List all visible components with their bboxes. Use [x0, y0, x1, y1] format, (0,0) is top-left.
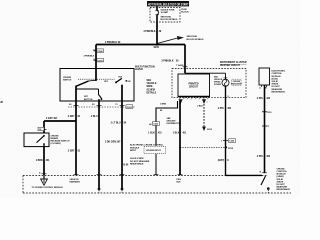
ground note — [167, 118, 182, 125]
svg-text:R/A: R/A — [119, 76, 123, 79]
svg-text:INSTRUMENT CLUSTER: INSTRUMENT CLUSTER — [220, 62, 247, 64]
inner block label — [188, 84, 198, 89]
mechanical link (dashed) — [78, 78, 115, 80]
fuse block name label — [181, 9, 189, 14]
switch SW2 resume/accel — [104, 76, 131, 87]
svg-text:MEASURE: MEASURE — [272, 88, 283, 91]
cruise module label column — [277, 168, 291, 191]
wire label 2 GRY 81 — [68, 116, 81, 118]
wire label 1 BLK 451 — [148, 132, 162, 135]
svg-text:2 BLK: 2 BLK — [197, 106, 203, 108]
connector C210 tick — [262, 112, 272, 114]
svg-text:INPUT: INPUT — [130, 150, 137, 152]
fuse F1 GAGES — [155, 6, 158, 22]
connector C206 — [93, 48, 103, 52]
wire: ground continues — [155, 154, 157, 176]
instrument cluster dashed box — [172, 69, 246, 98]
svg-text:3 PNK/BLK: 3 PNK/BLK — [161, 61, 173, 63]
wire: right feed drop to cluster — [184, 45, 186, 74]
wire label 1 BRN 441 — [36, 159, 50, 162]
svg-text:BLOCK DETAILS: BLOCK DETAILS — [187, 38, 205, 41]
ECM box — [259, 68, 270, 85]
wire: switch output 3 — [121, 85, 123, 188]
svg-text:SEE: SEE — [147, 80, 152, 82]
svg-text:4 PPL: 4 PPL — [257, 155, 264, 158]
svg-text:BRAKE: BRAKE — [51, 137, 59, 140]
wire: brake switch output — [43, 147, 45, 175]
wire: cluster ground straight — [179, 101, 181, 175]
svg-text:WIRE: WIRE — [147, 86, 153, 88]
svg-text:CRUISE INPUT: CRUISE INPUT — [146, 150, 162, 152]
wire: switch output 1 — [75, 86, 77, 175]
svg-text:HARNESS: HARNESS — [70, 180, 81, 183]
connector C210 — [149, 122, 159, 126]
wire label 3 PNK/BLK 39 — [161, 61, 179, 63]
wire label 3 PNK/BLK 39 — [143, 31, 161, 33]
svg-text:1: 1 — [221, 140, 222, 142]
svg-text:1 BLK: 1 BLK — [173, 133, 180, 135]
svg-text:RESISTANCE: RESISTANCE — [130, 163, 144, 166]
cruise indicator label — [231, 79, 242, 85]
wire label 1 GRY 8 — [218, 160, 229, 162]
svg-text:MULTI-FUNCTION: MULTI-FUNCTION — [135, 66, 155, 68]
wire: main feed horizontal — [96, 44, 185, 46]
svg-text:SCHEM: SCHEM — [214, 84, 221, 86]
instrument cluster label — [220, 62, 247, 67]
connector C1 tick — [262, 126, 270, 128]
brake switch label — [51, 135, 70, 145]
svg-text:(CLOSED): (CLOSED) — [51, 143, 61, 145]
svg-text:C1: C1 — [115, 104, 117, 106]
svg-text:INDICATOR: INDICATOR — [231, 82, 242, 85]
cluster pin 7 — [202, 99, 206, 104]
svg-text:2 BLU: 2 BLU — [91, 116, 98, 118]
cruise indicator bulb — [222, 79, 229, 86]
brake wire pin and off-page arrow — [32, 171, 64, 189]
cluster left note — [214, 77, 223, 86]
svg-text:C275: C275 — [98, 60, 104, 62]
svg-text:PRINTED CIRCUIT: PRINTED CIRCUIT — [220, 65, 241, 67]
see-vehicle note column — [147, 80, 157, 95]
svg-text:TO CRUISE CONTROL MODULE: TO CRUISE CONTROL MODULE — [32, 187, 64, 189]
svg-text:BLOCK DETAILS: BLOCK DETAILS — [161, 18, 179, 21]
fuse block dashed box — [150, 8, 180, 23]
svg-text:BLOCK: BLOCK — [181, 12, 189, 14]
switch wire 1 pin at module — [70, 175, 81, 184]
cruise release brake switch box — [24, 133, 49, 147]
wire label 2 LT BLU 84 — [111, 122, 127, 125]
svg-text:LEVER: LEVER — [135, 69, 143, 71]
svg-text:B 84: B 84 — [123, 163, 129, 166]
ECM pins — [259, 85, 267, 90]
ECM label column — [272, 71, 286, 94]
svg-text:3 PNK/BLK: 3 PNK/BLK — [83, 56, 94, 58]
svg-text:(GRAY): (GRAY) — [277, 175, 285, 178]
svg-text:8: 8 — [228, 96, 229, 98]
switch SW1 common blade — [75, 69, 97, 88]
svg-text:STATE: STATE — [272, 83, 279, 86]
cruise control module boundary (dashed) — [23, 176, 291, 194]
svg-text:1 BRN: 1 BRN — [160, 104, 167, 106]
svg-text:DETAILS: DETAILS — [147, 92, 157, 95]
svg-text:2 GRY: 2 GRY — [68, 151, 75, 153]
svg-text:7: 7 — [207, 102, 208, 104]
svg-text:C220: C220 — [229, 141, 235, 143]
svg-text:GAGES FUSE: GAGES FUSE — [161, 8, 175, 11]
svg-text:2 GRY 397: 2 GRY 397 — [46, 118, 58, 120]
svg-text:B1: B1 — [92, 104, 94, 106]
wire: left feed drop to switch — [95, 45, 97, 69]
wire: cluster sensor lead (dashed) — [197, 102, 212, 131]
wire: ECM output — [264, 85, 266, 173]
svg-text:A8: A8 — [149, 123, 151, 126]
wire label 4 PPL 420 — [257, 155, 271, 158]
set button switch — [76, 86, 102, 100]
hot feed header bar — [147, 1, 189, 7]
svg-text:RESISTANCE: RESISTANCE — [272, 90, 286, 93]
svg-text:(GRY): (GRY) — [218, 160, 225, 162]
svg-text:RESISTANCE: RESISTANCE — [277, 188, 291, 191]
svg-text:CIRCUIT: CIRCUIT — [189, 86, 199, 88]
svg-text:SWITCH: SWITCH — [63, 80, 72, 82]
cluster pin label — [176, 64, 187, 67]
svg-text:A1: A1 — [69, 103, 71, 106]
multi-function lever label — [135, 66, 155, 71]
svg-text:3 PNK/BLK 39: 3 PNK/BLK 39 — [105, 42, 121, 44]
svg-text:C206: C206 — [98, 51, 104, 53]
wire label 2 PPL 420 — [257, 97, 271, 100]
svg-text:BLK: BLK — [177, 181, 182, 183]
svg-text:C210: C210 — [267, 112, 273, 114]
svg-text:STATE: STATE — [277, 180, 284, 183]
ECC module note block — [130, 145, 166, 166]
svg-text:2 GRY: 2 GRY — [68, 116, 75, 118]
svg-text:10 AMP: 10 AMP — [161, 11, 169, 14]
svg-text:RELEASE SWITCH: RELEASE SWITCH — [51, 140, 70, 143]
splice S206 — [154, 43, 160, 49]
svg-text:T GAGE: T GAGE — [176, 64, 184, 67]
svg-text:1 BRN: 1 BRN — [36, 160, 43, 162]
ECM pin at module — [260, 171, 267, 173]
brake switch contacts — [37, 135, 45, 147]
see-detail arrow pointer — [157, 36, 204, 44]
connector C201 dashed run — [68, 103, 135, 109]
cluster pin 16 — [179, 99, 183, 104]
splice S218 dashed tie — [179, 146, 234, 150]
switch wire 2 terminal — [97, 175, 102, 193]
svg-text:ELECTRONIC CRUISE CONTROL: ELECTRONIC CRUISE CONTROL — [130, 145, 164, 147]
svg-text:1 BLK: 1 BLK — [148, 133, 155, 135]
switch wire 3 terminal — [120, 175, 125, 193]
svg-text:HOT IN RUN, BULB TEST OR START: HOT IN RUN, BULB TEST OR START — [148, 3, 189, 7]
connector C220 — [221, 139, 236, 143]
svg-text:3 PNK/BLK: 3 PNK/BLK — [143, 31, 155, 33]
svg-text:VEHICLE: VEHICLE — [147, 83, 157, 85]
svg-text:2 LT BLU: 2 LT BLU — [111, 123, 121, 125]
wire label 2 PPL 420 — [218, 107, 232, 110]
svg-text:SOLID STATE: SOLID STATE — [130, 157, 144, 160]
svg-text:DO NOT MEASURE: DO NOT MEASURE — [130, 160, 150, 163]
svg-text:MEASURE: MEASURE — [277, 186, 288, 189]
svg-text:SCHEM: SCHEM — [147, 89, 155, 91]
cluster inner block — [178, 74, 210, 97]
cruise module internal switch — [261, 176, 270, 193]
svg-text:S210: S210 — [207, 129, 213, 131]
printed circuit branch to indicator — [185, 73, 227, 79]
cruise switch box — [60, 69, 134, 102]
connector C275 — [93, 58, 103, 62]
ground wire pin at module — [178, 174, 183, 176]
svg-text:DISTRIBUTION: DISTRIBUTION — [167, 123, 182, 125]
svg-text:2 PPL: 2 PPL — [218, 108, 225, 110]
module pin label — [177, 179, 182, 184]
svg-text:2 DK GRN 397: 2 DK GRN 397 — [105, 141, 121, 143]
wire: switch output 2 — [98, 99, 100, 189]
wire label lower 2 GRY 81 — [68, 151, 81, 153]
svg-text:PRINTED: PRINTED — [188, 84, 198, 86]
svg-text:C210: C210 — [153, 124, 159, 126]
wire: cluster ground step — [156, 101, 178, 146]
wire: indicator return — [224, 86, 262, 175]
wire: brake switch branch — [44, 120, 76, 122]
fuse value label — [161, 8, 179, 21]
svg-text:BUTTON: BUTTON — [84, 99, 93, 101]
svg-text:2 PPL: 2 PPL — [257, 98, 264, 100]
svg-text:C201: C201 — [127, 107, 133, 109]
wire: fuse output PNK/BLK — [156, 22, 158, 45]
svg-text:MODULE: MODULE — [130, 147, 140, 149]
switch assembly label — [63, 77, 72, 82]
svg-text:S218: S218 — [228, 148, 234, 150]
wire label 2 BLK 451 — [173, 132, 187, 135]
connector C2 on brake drop — [38, 127, 47, 131]
svg-text:S206: S206 — [154, 47, 160, 49]
